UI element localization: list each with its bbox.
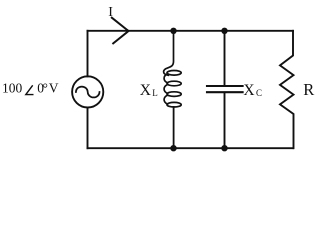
wire inductor top lead with entry curl [164, 31, 174, 76]
angle symbol of phasor value [26, 85, 34, 94]
svg-text:X: X [140, 82, 151, 99]
wire source top lead [87, 31, 89, 77]
svg-text:L: L [152, 88, 158, 98]
value label 100 angle 0 deg V [2, 81, 59, 96]
capacitor XC bottom plate [207, 91, 243, 93]
wire bottom rail [88, 147, 294, 149]
inductor XL loop 3 [167, 92, 181, 97]
node junction bottom inductor [170, 145, 176, 151]
svg-text:C: C [256, 88, 262, 98]
svg-text:X: X [243, 82, 254, 99]
current arrow head [112, 18, 129, 44]
wire capacitor bottom lead [224, 93, 226, 148]
inductor XL loop 2 [167, 81, 181, 86]
AC source VS sine mark [76, 87, 100, 98]
svg-text:I: I [108, 5, 113, 20]
svg-text:R: R [303, 80, 314, 99]
svg-text:100: 100 [2, 81, 23, 96]
node junction top inductor [170, 28, 176, 34]
resistor R zigzag with top and bottom leads [280, 31, 294, 148]
node junction top capacitor [221, 28, 227, 34]
node junction bottom capacitor [221, 145, 227, 151]
inductor XL loop 1 [167, 71, 181, 76]
wire source bottom lead [87, 108, 89, 149]
wire inductor bottom lead [173, 107, 175, 148]
inductor XL connector arc 1 [164, 74, 168, 83]
AC source VS circle [72, 76, 103, 107]
wire top rail [88, 30, 294, 32]
label XL [140, 82, 158, 99]
svg-text:V: V [49, 81, 59, 96]
svg-text:°: ° [43, 81, 48, 96]
inductor XL loop 4 [167, 102, 181, 107]
capacitor XC top plate [207, 85, 243, 87]
label XC [243, 82, 262, 99]
inductor XL connector arc 2 [164, 85, 168, 94]
wire capacitor top lead [224, 31, 226, 85]
inductor XL connector arc 3 [164, 95, 168, 104]
